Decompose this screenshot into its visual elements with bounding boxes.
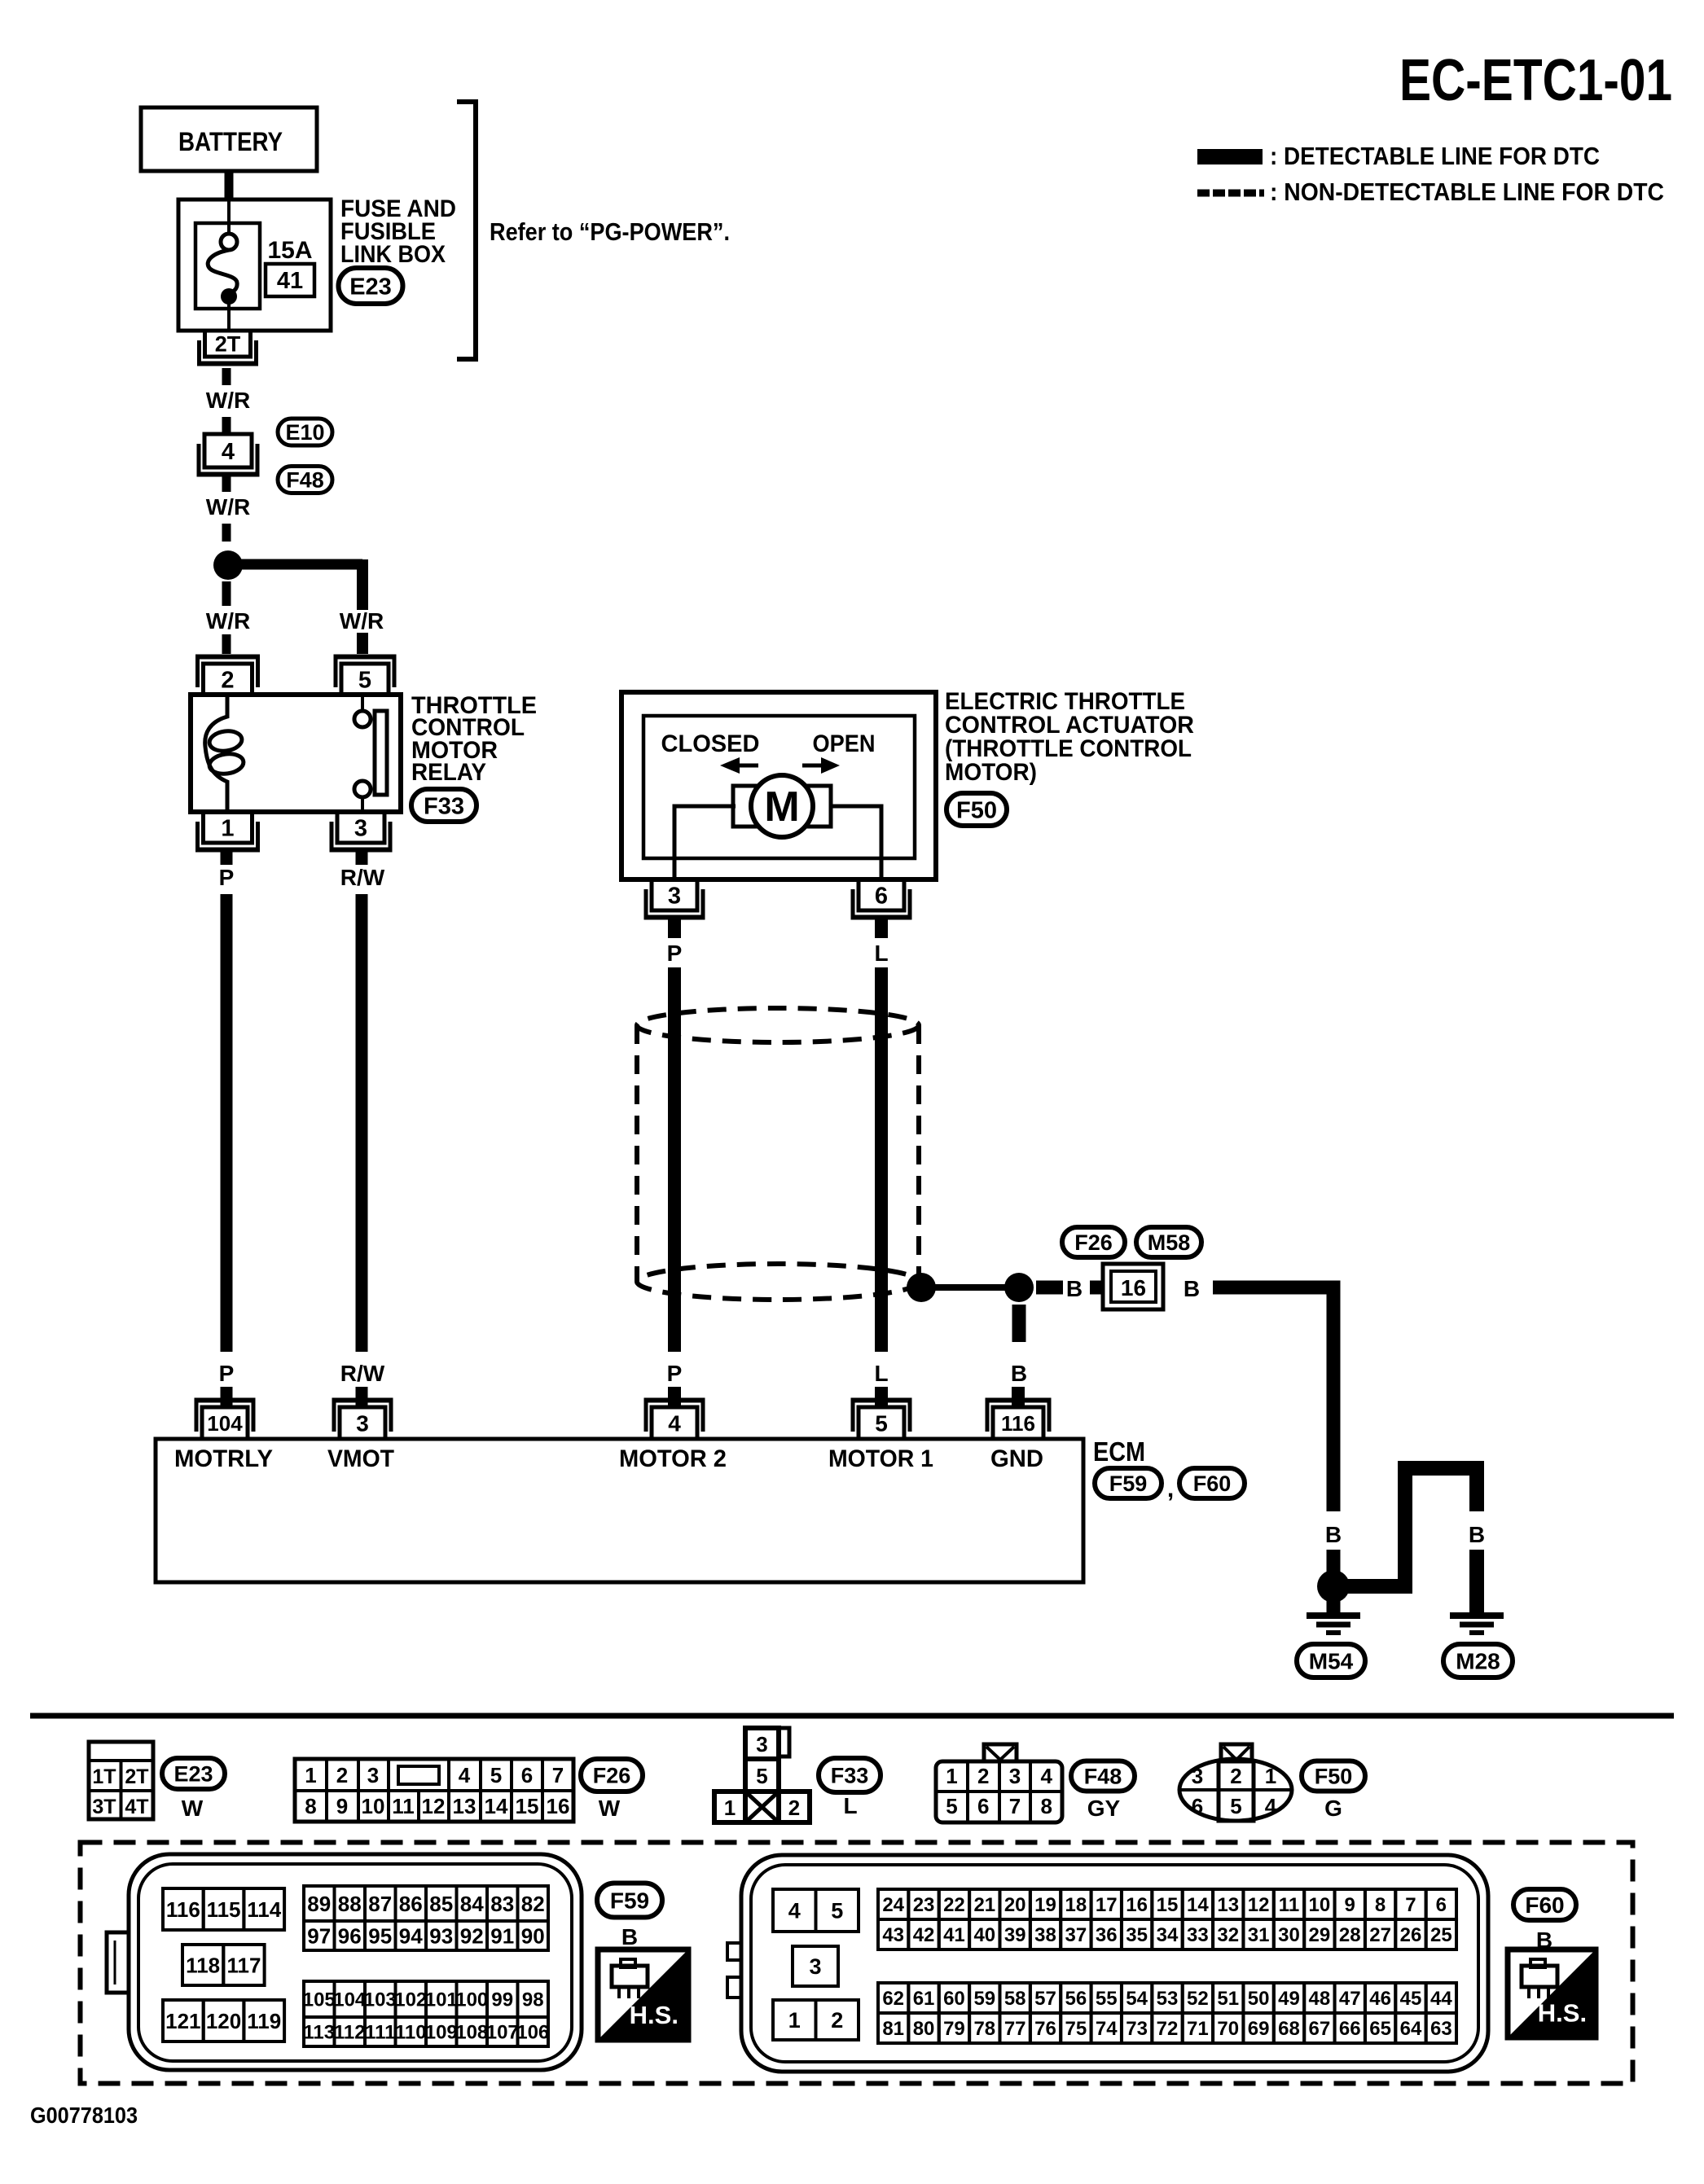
svg-text:19: 19 [1034, 1894, 1056, 1916]
shield cylinder dashed [637, 1008, 919, 1300]
connector ref F50 oval [946, 793, 1007, 826]
svg-text:W/R: W/R [206, 388, 250, 413]
svg-text:70: 70 [1217, 2018, 1239, 2040]
svg-text:114: 114 [247, 1897, 281, 1922]
wire left leg lower [1398, 1550, 1412, 1579]
wire B to node [1327, 1550, 1341, 1572]
wire dash to 16 [1090, 1281, 1105, 1295]
svg-text:107: 107 [486, 2022, 519, 2044]
svg-text:5: 5 [875, 1411, 888, 1436]
svg-text:81: 81 [882, 2018, 904, 2040]
wire dash node to 16 [1036, 1281, 1063, 1295]
svg-text:59: 59 [973, 1988, 995, 2010]
legend non-detectable line for DTC [1197, 178, 1664, 206]
svg-text:98: 98 [522, 1989, 544, 2011]
svg-text:F60: F60 [1525, 1892, 1564, 1918]
svg-text:13: 13 [1217, 1894, 1239, 1916]
svg-text:2: 2 [221, 667, 234, 693]
arrow open (right) [802, 757, 840, 774]
relay pin 2 [195, 657, 260, 695]
svg-text:102: 102 [394, 1989, 427, 2011]
legend detectable line for DTC [1197, 142, 1600, 170]
svg-text:13: 13 [453, 1794, 477, 1818]
svg-text:84: 84 [460, 1892, 484, 1916]
svg-text:55: 55 [1096, 1988, 1118, 2010]
F60 pin cells right group [878, 1889, 1456, 2043]
relay pin 1 [195, 812, 260, 850]
svg-text:92: 92 [460, 1923, 484, 1948]
svg-text:15: 15 [1157, 1894, 1179, 1916]
wire shield to ground node [921, 1284, 1019, 1291]
svg-text:W: W [182, 1796, 204, 1821]
svg-text:5: 5 [831, 1899, 843, 1923]
svg-text:M54: M54 [1309, 1649, 1354, 1674]
connector face F26 [295, 1759, 573, 1822]
connector ref F59 oval bottom [597, 1884, 662, 1918]
svg-text:Refer to “PG-POWER”.: Refer to “PG-POWER”. [490, 217, 730, 246]
svg-text:7: 7 [552, 1763, 564, 1787]
svg-text:14: 14 [485, 1794, 508, 1818]
wire L motor long [875, 967, 888, 1352]
svg-text:9: 9 [1345, 1894, 1355, 1916]
svg-text:,: , [1167, 1476, 1174, 1502]
svg-text:35: 35 [1126, 1924, 1148, 1946]
ECM pin 4 [644, 1401, 705, 1440]
svg-text:H.S.: H.S. [630, 2001, 679, 2029]
svg-text:5: 5 [946, 1794, 957, 1818]
svg-text:F59: F59 [1109, 1471, 1148, 1496]
label G F50 [1324, 1796, 1342, 1821]
svg-text:68: 68 [1278, 2018, 1300, 2040]
svg-text:14: 14 [1187, 1894, 1209, 1916]
svg-text:4: 4 [1265, 1794, 1277, 1818]
svg-text:10: 10 [362, 1794, 385, 1818]
svg-text:27: 27 [1369, 1924, 1391, 1946]
svg-text:M28: M28 [1456, 1649, 1500, 1674]
svg-text:89: 89 [307, 1892, 331, 1916]
wire W/R segment [222, 368, 231, 385]
actuator pin 6 [851, 879, 912, 918]
title EC-ETC1-01 [1399, 48, 1672, 113]
svg-text:L: L [874, 941, 888, 966]
svg-text:58: 58 [1004, 1988, 1026, 2010]
svg-text:78: 78 [973, 2018, 995, 2040]
svg-text:50: 50 [1248, 1988, 1270, 2010]
wire dash to pin 2 [222, 634, 231, 654]
svg-text:72: 72 [1157, 2018, 1179, 2040]
svg-text:LINK BOX: LINK BOX [340, 241, 446, 268]
actuator pin 3 [644, 879, 705, 918]
svg-text:73: 73 [1126, 2018, 1148, 2040]
svg-text:36: 36 [1096, 1924, 1118, 1946]
F59 pin cells left group [163, 1888, 284, 2041]
svg-text:54: 54 [1126, 1988, 1148, 2010]
svg-text:5: 5 [756, 1764, 767, 1788]
label OPEN [813, 730, 876, 757]
svg-text:30: 30 [1278, 1924, 1300, 1946]
svg-text:88: 88 [338, 1892, 362, 1916]
svg-text:21: 21 [973, 1894, 995, 1916]
svg-text:99: 99 [491, 1989, 513, 2011]
svg-text:W/R: W/R [206, 608, 250, 634]
svg-text:34: 34 [1157, 1924, 1179, 1946]
svg-text:3T: 3T [92, 1796, 116, 1818]
throttle control motor relay F33 [191, 695, 401, 812]
wire P motor long [668, 967, 681, 1352]
svg-text:28: 28 [1339, 1924, 1361, 1946]
svg-text:95: 95 [368, 1923, 392, 1948]
svg-text:29: 29 [1309, 1924, 1331, 1946]
svg-text:1: 1 [724, 1796, 736, 1820]
svg-text:63: 63 [1430, 2018, 1452, 2040]
label P [219, 865, 235, 890]
svg-text:2: 2 [977, 1764, 989, 1788]
svg-text:3: 3 [1009, 1764, 1021, 1788]
label L F33 [843, 1793, 857, 1818]
svg-text:115: 115 [207, 1897, 241, 1922]
label GY F48 [1087, 1796, 1121, 1821]
svg-text:: DETECTABLE LINE FOR DTC: : DETECTABLE LINE FOR DTC [1270, 142, 1600, 170]
svg-text:11: 11 [392, 1794, 415, 1818]
svg-text:105: 105 [303, 1989, 336, 2011]
svg-text:3: 3 [668, 883, 681, 909]
svg-text:94: 94 [399, 1923, 423, 1948]
svg-text:2T: 2T [215, 332, 241, 357]
svg-text:118: 118 [186, 1953, 220, 1977]
svg-text:: NON-DETECTABLE LINE FOR DTC: : NON-DETECTABLE LINE FOR DTC [1270, 178, 1664, 206]
svg-text:75: 75 [1065, 2018, 1087, 2040]
F60 pin cells left group [773, 1889, 859, 2040]
svg-text:79: 79 [943, 2018, 965, 2040]
svg-text:46: 46 [1369, 1988, 1391, 2010]
electric throttle control actuator box F50 [621, 692, 936, 879]
svg-text:17: 17 [1096, 1894, 1118, 1916]
H.S. logo left [598, 1949, 688, 2040]
connector face F33 [714, 1728, 810, 1822]
wire stub pin 3 [356, 1387, 368, 1408]
svg-text:P: P [667, 1361, 683, 1386]
svg-text:109: 109 [425, 2022, 458, 2044]
svg-text:1: 1 [221, 815, 234, 841]
svg-text:47: 47 [1339, 1988, 1361, 2010]
svg-text:4: 4 [459, 1763, 471, 1787]
svg-text:F60: F60 [1193, 1471, 1232, 1496]
relay pin 5 [334, 657, 397, 695]
svg-text:62: 62 [882, 1988, 904, 2010]
H.S. logo right [1508, 1949, 1596, 2037]
svg-text:60: 60 [943, 1988, 965, 2010]
svg-text:F50: F50 [956, 797, 997, 823]
svg-text:69: 69 [1248, 2018, 1270, 2040]
svg-text:112: 112 [334, 2022, 366, 2044]
battery [141, 107, 317, 171]
svg-text:12: 12 [1248, 1894, 1270, 1916]
svg-text:90: 90 [521, 1923, 545, 1948]
svg-text:R/W: R/W [340, 865, 385, 890]
connector ref F48 oval [278, 467, 332, 493]
svg-text:96: 96 [338, 1923, 362, 1948]
svg-text:5: 5 [490, 1763, 502, 1787]
svg-text:121: 121 [165, 2009, 200, 2033]
wire P stub below relay [221, 852, 233, 865]
svg-text:3: 3 [1192, 1764, 1203, 1788]
svg-text:40: 40 [973, 1924, 995, 1946]
wire R/W long [356, 894, 368, 1352]
F59 pin cells right group [303, 1886, 550, 2046]
label P motor [667, 941, 683, 966]
svg-text:5: 5 [358, 667, 371, 693]
ECM pin 3 [332, 1401, 393, 1440]
svg-text:16: 16 [1121, 1275, 1146, 1300]
svg-text:104: 104 [207, 1411, 243, 1436]
svg-text:3: 3 [756, 1732, 767, 1756]
svg-text:2T: 2T [125, 1765, 148, 1788]
wire W/R segment 2 [222, 476, 231, 492]
connector ref E23 oval bottom [162, 1758, 225, 1789]
label W/R right [340, 608, 384, 634]
dashed detail box [81, 1843, 1633, 2084]
svg-text:RELAY: RELAY [411, 759, 486, 786]
svg-text:OPEN: OPEN [813, 730, 876, 757]
arrow closed (left) [720, 757, 758, 774]
label FUSE AND FUSIBLE LINK BOX [340, 195, 456, 268]
svg-text:82: 82 [521, 1892, 545, 1916]
shield junction node [907, 1273, 936, 1302]
label THROTTLE CONTROL MOTOR RELAY [411, 692, 537, 786]
svg-text:1: 1 [946, 1764, 957, 1788]
wire right leg to ground [1469, 1550, 1484, 1615]
wire P long [221, 894, 233, 1352]
label B F59 [621, 1924, 638, 1949]
connector refs F26 M58 ovals [1062, 1227, 1201, 1257]
svg-text:33: 33 [1187, 1924, 1209, 1946]
svg-text:111: 111 [365, 2022, 395, 2044]
svg-text:B: B [1066, 1276, 1083, 1301]
svg-text:2: 2 [788, 1796, 800, 1820]
svg-text:76: 76 [1034, 2018, 1056, 2040]
svg-text:32: 32 [1217, 1924, 1239, 1946]
svg-text:104: 104 [333, 1989, 367, 2011]
svg-text:MOTOR): MOTOR) [945, 759, 1037, 786]
svg-text:38: 38 [1034, 1924, 1056, 1946]
svg-text:7: 7 [1009, 1794, 1021, 1818]
svg-text:64: 64 [1400, 2018, 1422, 2040]
svg-text:8: 8 [305, 1794, 316, 1818]
separator line [30, 1713, 1674, 1719]
label W F26 [599, 1796, 621, 1821]
svg-text:W/R: W/R [340, 608, 384, 634]
svg-text:1: 1 [1265, 1764, 1276, 1788]
wire stub pin 4 [668, 1387, 681, 1408]
svg-text:51: 51 [1217, 1988, 1239, 2010]
svg-text:3: 3 [356, 1411, 369, 1436]
connector ref F33 oval [411, 789, 477, 822]
connector face F50 [1179, 1744, 1292, 1821]
svg-text:E10: E10 [285, 420, 324, 445]
svg-text:F33: F33 [831, 1764, 869, 1788]
svg-text:4: 4 [788, 1899, 801, 1923]
svg-text:2: 2 [1230, 1764, 1241, 1788]
connector refs F59 , F60 ovals [1095, 1468, 1245, 1502]
svg-text:20: 20 [1004, 1894, 1026, 1916]
svg-text:M: M [764, 783, 799, 831]
svg-text:1: 1 [305, 1763, 316, 1787]
svg-text:87: 87 [368, 1892, 392, 1916]
svg-text:7: 7 [1405, 1894, 1416, 1916]
label B above GND pin [1011, 1361, 1027, 1386]
svg-text:VMOT: VMOT [327, 1445, 394, 1472]
label P above pin 4 [667, 1361, 683, 1386]
svg-text:71: 71 [1187, 2018, 1209, 2040]
relay switch contacts [354, 697, 387, 809]
svg-text:119: 119 [247, 2009, 281, 2033]
label W/R left [206, 608, 250, 634]
svg-text:1T: 1T [92, 1765, 116, 1788]
svg-text:53: 53 [1157, 1988, 1179, 2010]
wire stub pin 6 [875, 919, 888, 938]
wire stub pin 3 [668, 919, 681, 938]
wire node to M54 ground [1327, 1586, 1341, 1615]
label L motor [874, 941, 888, 966]
svg-text:44: 44 [1430, 1988, 1452, 2010]
svg-text:120: 120 [206, 2009, 241, 2033]
svg-text:49: 49 [1278, 1988, 1300, 2010]
connector pin 2T [197, 331, 258, 364]
label B right of 16 [1184, 1276, 1200, 1301]
svg-text:12: 12 [422, 1794, 446, 1818]
svg-text:100: 100 [455, 1989, 488, 2011]
ECM pin 116 [986, 1401, 1052, 1440]
connector ref E10 oval [278, 419, 332, 445]
svg-text:6: 6 [875, 883, 888, 909]
svg-text:116: 116 [166, 1897, 200, 1922]
label P above pin 104 [219, 1361, 235, 1386]
ground node right [1317, 1570, 1350, 1603]
svg-text:48: 48 [1309, 1988, 1331, 2010]
wire inverted U to M28 [1344, 1468, 1477, 1586]
svg-text:83: 83 [490, 1892, 514, 1916]
svg-text:26: 26 [1400, 1924, 1422, 1946]
svg-text:24: 24 [882, 1894, 904, 1916]
svg-text:W/R: W/R [206, 494, 250, 520]
junction node [213, 550, 243, 580]
wire B main to down right [1213, 1287, 1333, 1511]
svg-text:F59: F59 [610, 1888, 649, 1914]
ECM pin 5 [851, 1401, 912, 1440]
label B left of 16 [1066, 1276, 1083, 1301]
connector ref F26 oval bottom [581, 1759, 643, 1791]
svg-text:G: G [1324, 1796, 1342, 1821]
label B F60 [1536, 1927, 1552, 1953]
wire to pin 5 [357, 633, 368, 654]
svg-text:F48: F48 [286, 468, 324, 493]
label Refer to PG-POWER [490, 217, 730, 246]
connector face E23 [89, 1742, 153, 1819]
svg-text:18: 18 [1065, 1894, 1087, 1916]
svg-text:57: 57 [1034, 1988, 1056, 2010]
wire motor left to pin 3 [674, 806, 736, 879]
svg-text:86: 86 [399, 1892, 423, 1916]
svg-text:GY: GY [1087, 1796, 1121, 1821]
ECM box [156, 1439, 1083, 1582]
label MOTOR 2 [619, 1445, 727, 1472]
connector face F48 [936, 1744, 1062, 1822]
figure number G00778103 [30, 2103, 138, 2128]
ECM connector F59 outline [107, 1854, 582, 2070]
label W/R 2 [206, 494, 250, 520]
svg-text:42: 42 [913, 1924, 935, 1946]
svg-text:65: 65 [1369, 2018, 1391, 2040]
svg-text:31: 31 [1248, 1924, 1270, 1946]
connector ref M28 oval [1443, 1644, 1513, 1677]
wire dash 2 [222, 524, 231, 542]
label W E23 [182, 1796, 204, 1821]
ground symbol M54 [1307, 1616, 1360, 1633]
svg-text:H.S.: H.S. [1538, 1999, 1587, 2028]
svg-text:B: B [1469, 1522, 1485, 1547]
svg-text:G00778103: G00778103 [30, 2103, 138, 2128]
label VMOT [327, 1445, 394, 1472]
ground junction node [1004, 1273, 1034, 1302]
svg-text:97: 97 [307, 1923, 331, 1948]
svg-text:P: P [667, 941, 683, 966]
svg-text:25: 25 [1430, 1924, 1452, 1946]
svg-text:85: 85 [429, 1892, 453, 1916]
svg-text:MOTOR 2: MOTOR 2 [619, 1445, 727, 1472]
svg-text:106: 106 [516, 2022, 549, 2044]
svg-text:52: 52 [1187, 1988, 1209, 2010]
label CLOSED [661, 730, 760, 757]
svg-text:B: B [1011, 1361, 1027, 1386]
svg-text:4T: 4T [125, 1796, 148, 1818]
svg-text:117: 117 [226, 1953, 261, 1977]
wire branch to relay pin 5 [228, 559, 362, 610]
svg-text:5: 5 [1230, 1794, 1241, 1818]
label ECM [1093, 1436, 1145, 1467]
svg-text:F33: F33 [424, 793, 464, 819]
svg-text:15: 15 [516, 1794, 539, 1818]
wire dash below node [222, 581, 231, 606]
svg-text:CLOSED: CLOSED [661, 730, 760, 757]
svg-text:8: 8 [1375, 1894, 1386, 1916]
label L above pin 5 [874, 1361, 888, 1386]
svg-text:E23: E23 [349, 274, 392, 300]
svg-text:B: B [1184, 1276, 1200, 1301]
svg-text:11: 11 [1279, 1894, 1299, 1916]
svg-text:4: 4 [1041, 1764, 1053, 1788]
label R/W [340, 865, 385, 890]
svg-text:EC-ETC1-01: EC-ETC1-01 [1399, 48, 1672, 113]
fusible link 15A 41 [195, 200, 314, 331]
svg-text:R/W: R/W [340, 1361, 385, 1386]
svg-text:W: W [599, 1796, 621, 1821]
svg-text:113: 113 [303, 2022, 335, 2044]
svg-text:4: 4 [668, 1411, 681, 1436]
label ELECTRIC THROTTLE CONTROL ACTUATOR [945, 688, 1194, 786]
svg-text:41: 41 [943, 1924, 965, 1946]
svg-text:4: 4 [222, 439, 235, 465]
relay pin 3 [330, 812, 393, 850]
label MOTOR 1 [828, 1445, 933, 1472]
svg-text:67: 67 [1309, 2018, 1331, 2040]
label B main wire [1325, 1522, 1342, 1547]
connector ref F50 oval bottom [1302, 1761, 1365, 1791]
svg-text:3: 3 [809, 1954, 821, 1979]
svg-text:2: 2 [831, 2008, 843, 2033]
wire stub pin 104 [221, 1387, 233, 1408]
svg-text:GND: GND [990, 1445, 1043, 1472]
connector ref M54 oval [1297, 1644, 1365, 1677]
